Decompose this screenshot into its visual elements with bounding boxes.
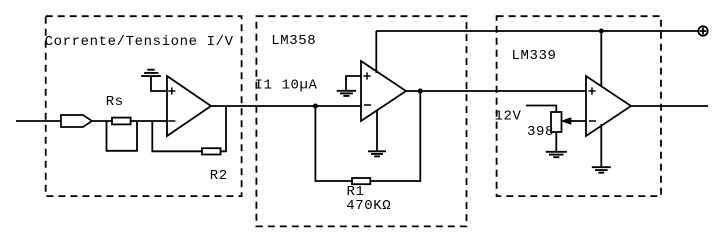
wire: junction down to R1 rail — [314, 106, 316, 182]
module box: LM339 — [497, 16, 661, 196]
comparator U3 plus mark — [588, 87, 595, 94]
op-amp U1 minus mark — [168, 120, 175, 122]
comparator U3 minus mark — [589, 120, 596, 122]
potentiometer body — [551, 112, 562, 132]
wire: U2 + input to ground — [346, 76, 361, 91]
module box: Corrente/Tensione I/V — [46, 16, 242, 196]
node: power rail junction — [599, 29, 604, 34]
power rail — [376, 30, 698, 32]
wire: inverting input to feedback rail — [151, 121, 153, 152]
wire: R2 feedback rail — [152, 150, 227, 152]
ground: U3 V- — [592, 167, 611, 173]
power terminal ⊕ — [698, 26, 707, 35]
ground: U1 non-inverting input (inverted) — [141, 70, 161, 76]
op-amp U2 plus mark — [363, 72, 370, 79]
svg-text:12V: 12V — [495, 109, 522, 125]
svg-text:LM358: LM358 — [271, 33, 316, 49]
wire: feedback rail to U1 output — [225, 106, 227, 152]
input tag connector — [61, 115, 92, 127]
wire: U1 output to U2 inverting input — [211, 105, 361, 107]
wiper arrow — [562, 118, 571, 124]
wire: input — [16, 120, 62, 122]
svg-text:Rs: Rs — [106, 94, 124, 110]
wire: U3 output — [631, 105, 708, 107]
comparator U3 — [586, 76, 631, 136]
ground: U2 V- — [368, 151, 386, 156]
wire: potentiometer to ground — [555, 132, 557, 152]
svg-text:I1 10µA: I1 10µA — [255, 78, 318, 94]
wire: U2 output to U3 non-inverting input — [406, 90, 586, 92]
node: U2 inverting input junction — [313, 104, 318, 109]
resistor Rs — [112, 118, 131, 125]
node: U2 output junction — [418, 89, 423, 94]
wire: R1 rail up to U2 output — [419, 91, 421, 182]
op-amp U1 — [167, 76, 211, 136]
op-amp U2 — [361, 61, 406, 121]
wire: U2 V- pin down — [376, 110, 378, 151]
wire: wiper to U3 inverting input — [569, 120, 586, 122]
resistor R2 — [202, 148, 221, 154]
wire: 12V to potentiometer top — [526, 106, 556, 113]
wire: U2 V+ pin to power rail — [375, 31, 377, 73]
wire: U1 + input to ground — [151, 76, 167, 92]
ground: potentiometer — [546, 152, 567, 157]
wire: U3 V- pin down — [600, 124, 602, 167]
svg-text:LM339: LM339 — [512, 48, 557, 64]
op-amp U2 minus mark — [364, 104, 371, 106]
svg-text:Corrente/Tensione I/V: Corrente/Tensione I/V — [45, 34, 234, 50]
wire: rail to U3 V+ pin — [600, 31, 602, 87]
wire: tag to U1 inverting input — [92, 120, 167, 122]
op-amp U1 plus mark — [168, 87, 175, 94]
resistor R1 — [352, 178, 370, 184]
wire: Rs bypass loop — [107, 121, 138, 151]
svg-text:470KΩ: 470KΩ — [346, 198, 391, 214]
ground: U2 non-inverting input — [337, 91, 357, 96]
wire: R1 feedback rail — [315, 180, 421, 182]
svg-text:R2: R2 — [210, 168, 228, 184]
svg-text:398: 398 — [527, 124, 554, 140]
module box: LM358 — [256, 16, 466, 226]
